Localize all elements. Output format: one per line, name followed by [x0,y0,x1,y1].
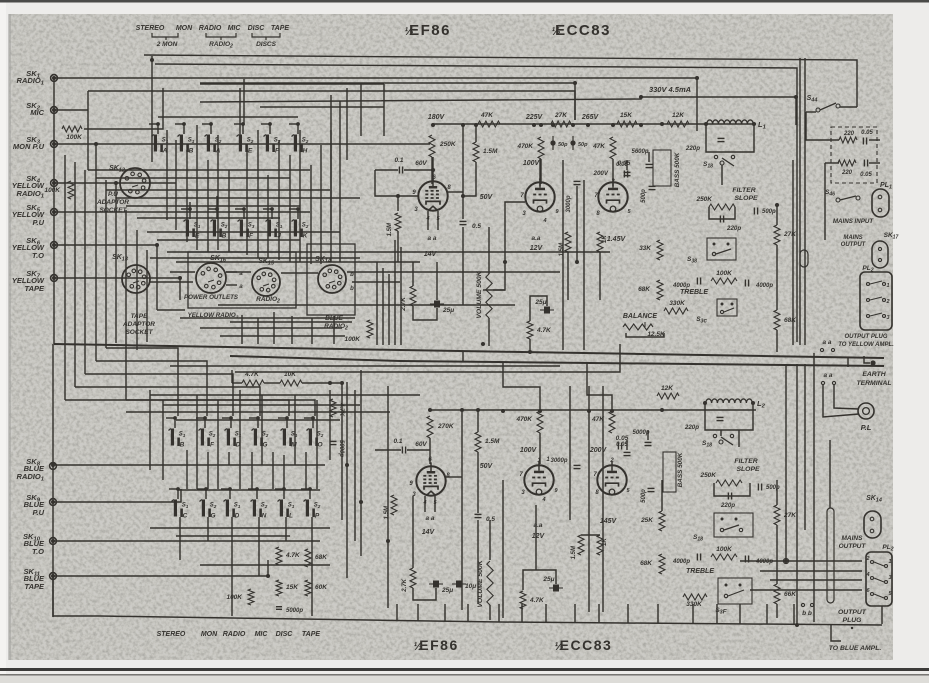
svg-text:4.7K: 4.7K [536,327,552,334]
svg-text:TERMINAL: TERMINAL [856,380,891,387]
svg-text:P.U: P.U [32,218,44,227]
svg-text:S1: S1 [291,432,298,438]
resistor 68K (botR) [659,554,665,574]
capacitor 4000p R (bot) [744,556,746,563]
wire SK6 run [54,245,157,310]
svg-text:220: 220 [841,170,853,176]
svg-text:EF86: EF86 [419,637,458,653]
resistor 1.5M screen (bot) [475,432,481,452]
svg-text:S2: S2 [261,503,268,509]
svg-text:5000p: 5000p [338,440,344,457]
junction node 57 [795,623,799,627]
svg-text:60K: 60K [315,584,328,591]
junction node 16 [396,194,400,198]
wire earth drop [864,356,870,363]
svg-text:27K: 27K [783,231,797,238]
svg-text:15K: 15K [620,112,633,119]
resistor 330K (bot) [683,594,707,600]
switch contact S&#8322;E (row1) [239,135,242,152]
wire bus y83 [200,83,575,120]
wire pin8 stub (bot) [446,476,462,478]
svg-text:S2: S2 [262,432,269,438]
svg-text:TREBLE: TREBLE [680,289,708,296]
wire socket pin drop 8 [382,268,384,345]
svg-text:25μ: 25μ [442,307,454,314]
wire horizontal link 15 [150,281,193,283]
wire long vertical top b [583,180,585,350]
junction node 11 [639,95,643,99]
wire horizontal link 1 [88,169,310,171]
junction node 25 [775,203,779,207]
wire horizontal link 5 [126,205,300,207]
fuse link (mains) [800,250,808,267]
svg-text:S1: S1 [162,138,169,144]
resistor 1.5M grid (top) [395,213,401,231]
wire screen feed [462,125,464,219]
wire horizontal link 20 [200,327,342,329]
svg-text:68K: 68K [638,286,651,293]
wire socket pin drop 9 [388,274,390,345]
capacitor 25u (bot fb) [553,585,559,592]
svg-text:25μ: 25μ [542,576,554,583]
resistor 12K (top) [667,121,689,127]
svg-text:P.L: P.L [861,423,872,432]
svg-text:B: B [180,442,185,449]
earth terminal dot [870,360,875,365]
svg-text:1.5M: 1.5M [485,438,500,445]
wire horizontal link 12 [226,271,251,273]
wire row4 foot drop 2 [207,517,209,541]
wire SK11 run [53,560,268,576]
resistor 100K treble (top) [711,278,737,284]
svg-text:OUTPUT PLUG: OUTPUT PLUG [845,334,888,340]
wire long vertical bottom 9 [602,386,604,612]
resistor 15K rail (top) [617,121,637,127]
resistor 10K series (bottom) [280,380,302,386]
svg-text:270K: 270K [437,423,455,430]
wire bottom vertical 5 [207,452,209,489]
svg-text:a a: a a [822,339,831,346]
wire volume wiper [493,289,505,291]
wire supp right stub1 [869,139,880,141]
capacitor 5000p col (bottom) [276,606,282,608]
capacitor 0.1 grid (top EF86) [398,167,400,174]
junction node 21 [575,260,579,264]
svg-text:220p: 220p [684,424,699,431]
svg-text:3: 3 [886,315,889,321]
svg-text:470K: 470K [516,143,534,150]
input terminal SK&#8323; MON P.U [51,141,58,148]
wire L2 box drop [738,430,740,447]
wire socket pin drop 1 [241,315,243,344]
wire horizontal link 23 [230,321,352,323]
switch pole row4 6 [308,487,312,491]
svg-text:B: B [222,233,227,240]
svg-text:10μ: 10μ [465,583,476,590]
wire right pair vertical b [804,58,806,345]
svg-text:a a: a a [427,235,436,242]
svg-text:TO BLUE AMPL.: TO BLUE AMPL. [829,645,882,652]
resistor 2.7K cathode (top) [410,286,416,306]
input terminal SK&#8321; RADIO&#8321; [51,75,58,82]
junction node 45 [660,408,664,412]
wire bus drop 6 [521,604,523,622]
svg-text:100V: 100V [523,160,541,167]
input terminal SK&#8327; YELLOW TAPE [51,275,58,282]
switch box S38 (top treble) [707,238,736,260]
svg-text:BASS 500K: BASS 500K [677,452,684,487]
svg-text:2.7K: 2.7K [400,296,407,312]
wire plug feed 4 [750,589,862,591]
wire vertical feed 8 [136,230,138,350]
svg-text:12.5K: 12.5K [647,331,666,338]
capacitor 25u (top fb) [544,307,550,314]
resistor 1K cathode (V2a) [597,232,603,252]
capacitor 25u (bot cath) [433,581,439,588]
wire channel divider bus lower [230,356,884,366]
wire bot cath net [412,496,414,568]
wire vertical feed 25 [320,145,322,264]
wire horizontal link 4 [116,197,360,199]
svg-text:100K: 100K [344,336,361,343]
capacitor 0.05 (bot) [617,443,619,450]
switch contact S&#8321;D (row3) [227,429,230,446]
switch contact S&#8322;H (row1) [294,135,297,152]
wire SK3 drop [95,144,97,262]
wire pin8 stub [448,191,463,193]
svg-text:5000p: 5000p [632,430,649,436]
pot 250K FILTER SLOPE (top) [709,204,735,210]
svg-text:TREBLE: TREBLE [686,568,714,575]
wire 68K down [776,330,778,352]
input terminal SK&#8322; MIC [51,107,58,114]
wire field top frame [170,365,560,367]
wire vertical feed 5 [105,180,107,348]
wire socket pin drop 5 [311,318,313,344]
wire right vert pair bot a [785,364,787,561]
svg-text:4000p: 4000p [755,283,773,289]
junction node 36 [155,243,159,247]
switch contact S&#8322;P (row4) [306,500,309,517]
wire bus drop 8 [574,604,576,623]
capacitor 50p b [572,136,574,150]
resistor 2.7K cathode (bot) [410,568,416,588]
input terminal SK&#8321;&#8321; BLUE TAPE [50,573,57,580]
svg-text:200V: 200V [589,447,608,454]
resistor 100K (SK4 input) [68,181,74,199]
pot 250K FILTER SLOPE (bot) [716,480,742,486]
svg-text:66K: 66K [784,591,797,598]
wire bus drop 10 [627,604,629,623]
wire SK2 riser [87,91,89,170]
resistor 60K col (bottom) [305,580,311,596]
wire horizontal link 14 [347,271,560,273]
junction node 13 [573,81,577,85]
svg-text:FILTER: FILTER [732,187,755,194]
wire cable inner [829,440,831,508]
wire plug feed 1 [740,560,862,562]
svg-text:E: E [195,233,200,240]
switch contact S&#8321;J (row2) [268,220,271,237]
svg-text:SLOPE: SLOPE [736,466,760,473]
resistor 1.5M (V2 bias) [565,232,571,252]
svg-text:3000p: 3000p [550,458,567,464]
switch pole row4 3 [228,487,232,491]
wire bottom vertical 2 [162,400,164,480]
wire bottom bus [53,576,882,625]
inductor L1 [707,120,753,124]
svg-text:MIC: MIC [255,631,269,638]
wire filter [721,165,723,185]
svg-text:225V: 225V [525,114,544,121]
switch contact S&#8321;B (row1) [180,135,183,152]
svg-text:BALANCE: BALANCE [623,313,658,320]
junction node 5 [539,123,543,127]
wire right descent [847,358,849,367]
wire field frame2 [235,344,620,372]
resistor 27K rail (top) [551,121,571,127]
switch pole row4 4 [255,487,259,491]
wire S44 left drop [806,112,839,140]
switch contact pole S&#8322;K r2 [296,207,300,211]
wire bus drop 11 [657,604,659,623]
wire horizontal link 19 [180,317,355,319]
tube ECC83 V2a (top) [525,182,554,211]
wire 27K runs2 [776,245,778,310]
svg-text:220p: 220p [685,145,700,152]
junction node 27 [52,142,56,146]
socket SK13 tape adaptor [122,265,150,293]
wire top bus 1 [144,55,857,107]
wire to blue ampl drop [831,624,841,641]
junction node 56 [784,559,788,563]
svg-text:S2: S2 [209,432,216,438]
wire feed vertical d [360,84,362,136]
bottom border double line [0,668,929,671]
wire bottom vertical 18 [354,390,356,541]
wire SK4 drop [115,183,117,300]
svg-text:RADIO: RADIO [223,631,246,638]
svg-text:S1: S1 [194,223,201,229]
wire vertical feed 10 [166,130,168,220]
wire vertical feed 6 [115,300,117,343]
capacitor 220p filt (bot) [727,493,729,500]
svg-text:SOCKET: SOCKET [99,207,127,214]
socket SK14 blue radio2 [318,265,346,293]
switch contact S&#8322;G (row4) [202,500,205,517]
socket SK12 P.U adaptor [120,168,150,198]
wire grid cap out [404,169,433,171]
resistor 15K col (bottom) [276,580,282,596]
junction node 44 [610,409,614,413]
switch contact pole S&#8323;F r2 [242,207,246,211]
wire long vertical bottom 2 [360,370,362,556]
svg-text:0.1: 0.1 [394,157,403,164]
svg-text:b: b [350,272,354,278]
junction node 20 [528,350,532,354]
svg-text:b: b [350,286,354,292]
wire right pair vertical a [799,58,801,345]
svg-text:S1: S1 [182,503,189,509]
input terminal SK&#8321;&#8320; BLUE T.O [50,538,57,545]
svg-text:250K: 250K [439,141,457,148]
wire V2a grid [483,202,525,290]
junction node 31 [52,276,56,280]
resistor 33K (top) [657,240,663,260]
wire SK1 radio1 run [54,78,697,131]
capacitor 0.05 (top) [623,171,625,178]
wire horizontal link 21 [220,335,345,337]
resistor 47K rail (top) [478,121,500,127]
wire horizontal link 2 [96,177,290,179]
wire vertical feed 4 [95,262,97,361]
switch contact S&#8321;D (row4) [226,500,229,517]
wire feed vertical b [339,101,341,262]
capacitor 220p (top) [718,137,725,139]
junction node 23 [704,122,708,126]
wire row4 foot drop 5 [285,517,287,541]
switch contact pole S&#8321;E r2 [188,207,192,211]
capacitor 0.05 (bot bass) [624,451,631,453]
wire bus y107 [260,106,384,108]
svg-text:3000p: 3000p [566,195,572,212]
capacitor 3000p (bot) [574,464,581,466]
capacitor 0.5 (bot) [475,513,482,515]
svg-text:250K: 250K [695,196,713,203]
wire 270K down [429,438,431,464]
wire staircase feed 3 [85,374,233,416]
switch contact S&#8322;O (row3) [309,429,312,446]
wire row1 pole bus [158,116,298,118]
svg-text:MON: MON [176,25,193,32]
junction node 12 [695,76,699,80]
svg-text:5000p: 5000p [286,608,303,614]
svg-text:27K: 27K [783,512,797,519]
svg-text:4: 4 [865,572,869,578]
svg-text:60V: 60V [415,441,427,448]
svg-text:BASS 500K: BASS 500K [674,152,681,187]
wire left bus to bottom [52,344,54,617]
resistor 470K anode (top ECC83a) [538,137,544,159]
junction node 49 [51,500,55,504]
svg-text:S2: S2 [210,503,217,509]
wire horizontal link 16 [352,281,400,283]
wire V1 plate up [432,157,434,181]
resistor 220 + cap 0.05 (supp b) [838,160,856,166]
switch contact pole S&#8322;F [268,122,272,126]
wire vertical feed 23 [299,130,301,262]
resistor 47K col (bottom) [276,547,282,565]
wire V3 cath leads [424,496,426,512]
resistor 1.5M (bot bias) [578,535,584,555]
input terminal SK&#8328; BLUE RADIO&#8321; [50,463,57,470]
svg-text:47K: 47K [591,416,605,423]
svg-text:33K: 33K [639,245,652,252]
L2 box contacts [713,434,716,437]
svg-text:E: E [248,148,253,155]
junction node 50 [51,539,55,543]
wire row4 foot drop 6 [311,517,313,616]
wire 470K down bot [539,433,541,464]
svg-text:500p: 500p [641,189,647,203]
wire V2a plate [539,159,541,186]
svg-text:3: 3 [888,575,891,581]
wire bus drop 9 [598,604,600,623]
svg-text:2 MON: 2 MON [156,41,178,48]
wire staircase feed 1 [106,348,178,416]
input terminal SK&#8325; YELLOW P.U [51,209,58,216]
svg-text:60V: 60V [415,160,427,167]
switch pole row3 6 [311,416,315,420]
wire V1 cathode leads [427,211,429,230]
svg-text:MAINS INPUT: MAINS INPUT [833,218,874,225]
wire 470K down [540,159,542,184]
capacitor 500p (bot) [648,487,655,489]
switch contact S&#8323;F (row2) [240,220,243,237]
svg-text:5600p: 5600p [631,149,648,155]
wire L2 to S18 [720,430,722,436]
wire socket pin drop 3 [273,312,275,344]
wire bottom horizontal 7 [200,564,330,566]
switch pole row3 2 [203,416,207,420]
svg-text:J: J [277,233,281,240]
left edge shadow [8,14,11,660]
wire S44 left [806,111,816,113]
svg-text:S1: S1 [234,503,241,509]
switch contact pole S&#8321;B [182,122,186,126]
wire grid leak down [397,231,399,262]
cable sleeve [827,508,834,603]
svg-text:MON P.U: MON P.U [13,142,45,151]
wire V1 grid left [398,196,418,211]
capacitor 0.05 bass [624,171,631,173]
wire feed vertical e [383,84,385,136]
svg-text:50V: 50V [480,194,494,201]
pot BASS 500K (bot) [663,452,676,492]
resistor 68K right (top) [774,310,780,330]
capacitor 500p (top out) [753,208,755,215]
wire bot right r1 [776,480,778,505]
svg-text:2: 2 [609,458,614,464]
wire series run [232,382,242,384]
resistor 1K (bot cath) [597,535,603,555]
svg-text:12K: 12K [661,385,674,392]
svg-text:12V: 12V [530,245,544,252]
wire bottom vertical 14 [305,452,307,489]
svg-text:S1: S1 [179,432,186,438]
wire plug feed 2 [760,570,862,572]
svg-text:1.45V: 1.45V [607,236,627,243]
wire vertical feed 3 [84,170,86,374]
svg-text:TAPE: TAPE [271,25,289,32]
tube EF86 V1 (top) [418,181,447,210]
svg-text:0.05: 0.05 [860,172,872,178]
wire bottom vertical 1 [149,390,151,470]
svg-text:500p: 500p [762,209,776,215]
junction node 40 [476,408,480,412]
wire feed vertical c [346,88,348,160]
svg-text:S2: S2 [302,223,309,229]
wire 330V bus right [641,97,796,125]
wire horizontal link 22 [150,257,360,259]
junction node 8 [586,123,590,127]
wire bottom vertical 3 [186,450,188,489]
wire filter slope box [709,207,735,219]
wire fb net2 [529,339,531,352]
junction node 9 [611,123,615,127]
wire long vertical bottom 6 [535,505,537,570]
svg-text:2: 2 [885,299,889,305]
